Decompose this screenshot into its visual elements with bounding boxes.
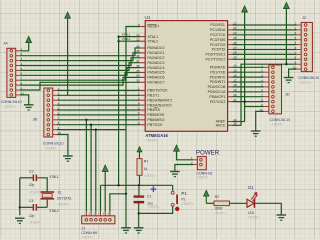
connector J1 value CONN-H6 [81, 231, 97, 235]
svg-text:5: 5 [138, 106, 140, 110]
LED D1 body [247, 199, 254, 208]
svg-text:<TEXT>: <TEXT> [144, 174, 156, 178]
svg-text:R2: R2 [215, 195, 220, 199]
svg-text:CONN-SIL10: CONN-SIL10 [43, 141, 64, 145]
svg-text:PC2/TCK: PC2/TCK [210, 33, 226, 37]
svg-text:CONN-SIL10: CONN-SIL10 [270, 118, 291, 122]
connector JB reference [33, 117, 38, 121]
svg-text:<TEXT>: <TEXT> [214, 212, 226, 216]
LED D1 reference [248, 185, 254, 190]
svg-text:PB4/SS: PB4/SS [147, 108, 160, 112]
crystal X1 body [42, 194, 52, 198]
wire JA pin5 to U1 PA3 [20, 63, 140, 71]
node rail-center [117, 184, 119, 186]
svg-text:RESET: RESET [147, 25, 160, 29]
svg-text:PD2/INT0: PD2/INT0 [210, 75, 226, 79]
power flag VCC above JA [26, 37, 32, 44]
wire J1 pin2 up [90, 125, 92, 212]
connector J1 reference [81, 226, 85, 230]
ground below JA [24, 105, 34, 110]
svg-text:16: 16 [233, 73, 237, 77]
connector JA body [7, 48, 20, 97]
capacitor C1 text placeholder [147, 205, 159, 209]
svg-text:22p: 22p [29, 183, 35, 187]
svg-text:<TEXT>: <TEXT> [29, 220, 41, 224]
wire reset rail horizontal [101, 184, 173, 186]
resistor R2 reference [215, 195, 220, 199]
wire U1 PC0 to JC pin1 [233, 24, 297, 26]
svg-text:25: 25 [233, 36, 237, 40]
wire U1 PC3 to JC pin4 [233, 39, 297, 41]
resistor R1 value 1k [144, 167, 148, 171]
capacitor C1 top plate [134, 195, 145, 197]
svg-text:22p: 22p [29, 214, 35, 218]
svg-text:23: 23 [233, 26, 237, 30]
connector JC reference [302, 16, 307, 20]
svg-text:22: 22 [233, 21, 237, 25]
svg-text:PB2/AIN0/INT2: PB2/AIN0/INT2 [147, 98, 172, 102]
wire R2 left lead [206, 202, 214, 204]
wire U1 PC6 to JC pin7 [233, 53, 297, 55]
node RESET branch [125, 193, 127, 195]
svg-text:<TEXT>: <TEXT> [45, 147, 57, 151]
svg-text:PC5/TDI: PC5/TDI [212, 48, 226, 52]
net label XTAL2 [49, 209, 59, 213]
connector JD text placeholder [272, 122, 284, 126]
svg-text:36: 36 [136, 64, 140, 68]
wire U1 PC1 to JC pin2 [233, 29, 297, 31]
wire C3 right lead / XTAL1 net [37, 178, 47, 192]
svg-text:<TEXT>: <TEXT> [147, 205, 159, 209]
button P1 text placeholder [181, 202, 193, 206]
resistor R2 text placeholder [214, 212, 226, 216]
wire JA pin8 to U1 PA6 [20, 77, 140, 85]
wire U1 PD6 to JD pin7 [233, 96, 264, 98]
power flag AREF supply [242, 6, 248, 122]
capacitor C4 value 22p [29, 214, 35, 218]
wire C1 top lead [138, 185, 140, 195]
wire LED cathode to ground [254, 203, 281, 215]
power flag VCC at J2 [174, 145, 180, 151]
svg-text:<TEXT>: <TEXT> [81, 235, 93, 239]
IC U1 text placeholder [145, 138, 157, 142]
svg-text:C1: C1 [147, 194, 152, 198]
wire JD pin10 to ground [256, 111, 264, 130]
U1 left pin numbers [136, 23, 140, 125]
svg-text:1k: 1k [144, 167, 148, 171]
svg-text:XTAL2: XTAL2 [49, 209, 59, 213]
wire C1 bottom lead to ground [138, 203, 140, 227]
svg-text:PD3/INT1: PD3/INT1 [210, 80, 226, 84]
capacitor C4 text placeholder [29, 220, 41, 224]
U1 right pin stubs [228, 25, 233, 125]
svg-text:10: 10 [21, 91, 25, 95]
svg-text:ATMEGA16: ATMEGA16 [145, 133, 168, 138]
wire VCC net JC pin9 / AVCC [233, 64, 297, 125]
wire U1 PD0 to JD pin1 [233, 66, 264, 68]
wire R1 bottom lead [139, 175, 141, 185]
svg-text:CONN-SIL10: CONN-SIL10 [299, 76, 320, 80]
svg-text:<TEXT>: <TEXT> [300, 81, 312, 85]
svg-text:PD7/OC2: PD7/OC2 [210, 100, 225, 104]
wire JA pin7 to U1 PA5 [20, 73, 140, 81]
svg-text:<TEXT>: <TEXT> [4, 105, 16, 109]
wire JB pin4 to U1 PB3 [57, 104, 140, 106]
U1 left pin names [147, 24, 172, 127]
svg-text:X1: X1 [57, 190, 61, 194]
capacitor C3 value 22p [29, 183, 35, 187]
LED D1 emission arrows [251, 193, 258, 201]
svg-text:PC1/SDA: PC1/SDA [210, 28, 226, 32]
svg-text:PC6/TOSC1: PC6/TOSC1 [205, 53, 225, 57]
wire JB pin3 to U1 PB2 [57, 99, 140, 101]
node VCC-JC9 [285, 63, 287, 65]
svg-text:PC0/SCL: PC0/SCL [210, 23, 225, 27]
wire branch to J1 pin6 [110, 194, 126, 212]
svg-text:34: 34 [136, 74, 140, 78]
svg-text:12: 12 [136, 38, 140, 42]
capacitor C1 reference [147, 194, 152, 198]
wire XTAL1 stub [119, 36, 141, 38]
wire JA pin6 to U1 PA4 [20, 68, 140, 76]
wire JD pin9 [245, 106, 264, 108]
resistor R2 body [214, 201, 230, 206]
wire U1 PD2 to JD pin3 [233, 76, 264, 78]
svg-text:18: 18 [233, 83, 237, 87]
svg-text:<TEXT>: <TEXT> [272, 122, 284, 126]
connector J2 text placeholder [197, 176, 209, 180]
IC U1 value ATMEGA16 [145, 133, 168, 138]
wire J2 pin1 to VCC [177, 151, 194, 160]
svg-text:35: 35 [136, 69, 140, 73]
node J1 pin3 tap [95, 128, 97, 130]
svg-text:PB6/MISO: PB6/MISO [147, 118, 164, 122]
connector JC pin numbers [293, 21, 297, 69]
U1 left pin stubs [140, 27, 145, 125]
wire JA pin3 to U1 PA1 [20, 53, 140, 61]
svg-text:40: 40 [136, 44, 140, 48]
power flag VCC above R1 [137, 147, 142, 159]
svg-text:330R: 330R [215, 206, 224, 210]
wire crystal bottom lead / XTAL2 net [46, 200, 48, 208]
LED D1 value LED [248, 211, 255, 215]
ground below J2 [170, 172, 180, 177]
svg-text:PD1/TXD: PD1/TXD [210, 70, 226, 74]
button P1 actuator bar [176, 195, 178, 205]
svg-text:POWER: POWER [196, 150, 220, 157]
svg-text:10: 10 [260, 108, 264, 112]
wire JB pin2 to U1 PB1 [57, 94, 140, 96]
button P1 value [181, 198, 185, 202]
connector JC value CONN-SIL10 [299, 76, 320, 80]
connector JD body [264, 65, 282, 114]
power flag VCC above J1 pin5 [102, 165, 108, 212]
net label XTAL1 [49, 175, 59, 179]
wire crystal left rail [19, 178, 21, 215]
IC U1 ATMEGA16 body [145, 21, 227, 132]
button P1 reference [181, 191, 187, 196]
wire U1 PC5 to JC pin6 [233, 49, 297, 51]
svg-text:XTAL2: XTAL2 [122, 37, 131, 41]
wire U1 PD4 to JD pin5 [233, 86, 264, 88]
capacitor C3 text placeholder [29, 190, 41, 194]
wire J1 pin1 up [85, 120, 87, 212]
svg-text:20: 20 [233, 93, 237, 97]
svg-text:30: 30 [233, 122, 237, 126]
wire RESET net vertical [126, 27, 140, 228]
connector JA pin numbers [21, 47, 25, 95]
connector J2 POWER body [193, 157, 206, 170]
wire button bottom lead [139, 206, 173, 213]
wire JA pin10 to ground [20, 95, 29, 105]
connector J1 body [82, 212, 115, 224]
svg-text:1: 1 [138, 87, 140, 91]
resistor R1 reference [144, 160, 149, 164]
ground below C1 [134, 228, 144, 233]
wire U1 PD1 to JD pin2 [233, 71, 264, 73]
svg-text:2: 2 [138, 92, 140, 96]
svg-text:XTAL1: XTAL1 [147, 35, 158, 39]
node XTAL2 [117, 40, 119, 42]
svg-text:P1: P1 [181, 191, 187, 196]
svg-text:PA6/ADC6: PA6/ADC6 [147, 76, 164, 80]
connector JD reference [285, 93, 290, 97]
connector JC text placeholder [300, 81, 312, 85]
capacitor C1 bottom plate [134, 201, 145, 204]
ground below JD [251, 131, 261, 136]
wire R2 to LED [230, 202, 247, 204]
svg-text:27: 27 [233, 46, 237, 50]
connector J2 value CONN-H2 [197, 172, 213, 176]
svg-text:9: 9 [138, 23, 140, 27]
svg-text:15: 15 [233, 69, 237, 73]
connector JB body [44, 88, 57, 137]
crystal X1 top plate [41, 191, 55, 193]
svg-text:JD: JD [285, 93, 290, 97]
svg-text:PA3/ADC3: PA3/ADC3 [147, 61, 164, 65]
resistor R2 value 330R [215, 206, 224, 210]
wire JB pin1 to U1 PB0 [57, 89, 140, 91]
svg-text:39: 39 [136, 49, 140, 53]
svg-text:XTAL1: XTAL1 [49, 175, 59, 179]
svg-text:U1: U1 [145, 15, 151, 20]
node R1/C1 junction [138, 184, 140, 186]
svg-text:PA5/ADC5: PA5/ADC5 [147, 71, 164, 75]
wire JA pin1 to power rail [20, 43, 29, 51]
power flag VCC tall left [65, 12, 71, 95]
svg-text:LED: LED [248, 211, 255, 215]
wire J2 pin2 to ground [175, 165, 193, 172]
svg-text:JB: JB [33, 117, 38, 121]
svg-text:XTAL2: XTAL2 [147, 39, 158, 43]
svg-text:PD5/OC1A: PD5/OC1A [208, 90, 226, 94]
connector JD pin numbers [260, 64, 264, 112]
svg-text:PD0/RXD: PD0/RXD [210, 66, 226, 70]
resistor R1 text placeholder [144, 174, 156, 178]
wire JA pin9 to U1 PA7 [20, 82, 140, 90]
capacitor C4 reference [29, 199, 34, 203]
svg-text:6: 6 [138, 111, 140, 115]
ground below LED [277, 215, 287, 220]
wire JA pin4 to U1 PA2 [20, 58, 140, 66]
net label XTAL2 at U1 [122, 37, 131, 41]
wire JB pin7 to U1 PB6 [57, 119, 140, 121]
ground below JC [284, 78, 294, 83]
svg-text:24: 24 [233, 31, 237, 35]
wire U1 PC7 to JC pin8 [233, 58, 297, 60]
wire U1 PC4 to JC pin5 [233, 44, 297, 46]
svg-text:JC: JC [302, 16, 307, 20]
svg-text:JA: JA [3, 41, 8, 45]
capacitor C3 reference [29, 169, 34, 173]
wire U1 PD7 to JD pin8 [233, 101, 264, 103]
ground right of JB [63, 156, 73, 161]
connector J1 text placeholder [81, 235, 93, 239]
wire U1 PD5 to JD pin6 [233, 91, 264, 93]
connector JB pin numbers [58, 87, 62, 135]
wire JB pin5 to U1 PB4 [57, 109, 140, 111]
svg-text:4: 4 [138, 101, 140, 105]
svg-text:10: 10 [58, 131, 62, 135]
LED D1 text placeholder [248, 215, 260, 219]
button P1 terminals [171, 191, 174, 206]
wire JB pin8 to U1 PB7 [57, 124, 140, 126]
svg-text:PB5/MOSI: PB5/MOSI [147, 113, 164, 117]
connector JD value CONN-SIL10 [270, 118, 291, 122]
wire center vertical to reset rail [118, 37, 120, 186]
resistor R1 body [137, 159, 142, 176]
power flag VCC at R2 [204, 190, 209, 203]
svg-text:19: 19 [233, 88, 237, 92]
ground below crystal rail [15, 218, 25, 223]
svg-text:38: 38 [136, 54, 140, 58]
svg-text:AVCC: AVCC [216, 124, 226, 128]
wire JA pin2 to U1 PA0 [20, 48, 140, 56]
svg-text:14: 14 [233, 64, 237, 68]
svg-text:C3: C3 [29, 169, 34, 173]
svg-text:3: 3 [138, 97, 140, 101]
svg-text:8: 8 [138, 121, 140, 125]
capacitor C1 value 10u [147, 201, 153, 205]
connector J1 pin numbers [84, 212, 110, 216]
connector J2 pin numbers [191, 156, 193, 165]
svg-text:28: 28 [233, 51, 237, 55]
svg-text:29: 29 [233, 56, 237, 60]
svg-text:PA4/ADC4: PA4/ADC4 [147, 66, 164, 70]
node PD7 staircase [243, 100, 245, 102]
label POWER [196, 150, 220, 157]
node C1/button junction [138, 212, 140, 214]
svg-text:<TEXT>: <TEXT> [197, 176, 209, 180]
svg-text:37: 37 [136, 59, 140, 63]
wire U1 PC2 to JC pin3 [233, 34, 297, 36]
svg-text:R1: R1 [144, 160, 149, 164]
wire C3 left lead [20, 177, 33, 179]
svg-text:PC4/TDO: PC4/TDO [210, 43, 226, 47]
svg-text:<TEXT>: <TEXT> [145, 138, 157, 142]
svg-text:PB0/T0/XCK: PB0/T0/XCK [147, 89, 168, 93]
svg-text:<TEXT>: <TEXT> [181, 202, 193, 206]
svg-text:<TEXT>: <TEXT> [57, 203, 69, 207]
svg-text:33: 33 [136, 79, 140, 83]
capacitor C4 plates [33, 204, 38, 211]
U1 right pin numbers [233, 21, 237, 125]
svg-text:<TEXT>: <TEXT> [248, 215, 260, 219]
svg-text:21: 21 [233, 98, 237, 102]
wire JB pin6 to U1 PB5 [57, 114, 140, 116]
wire C4 right lead [37, 206, 47, 208]
svg-text:PA2/ADC2: PA2/ADC2 [147, 56, 164, 60]
svg-text:13: 13 [136, 33, 140, 37]
svg-text:CONN-H6: CONN-H6 [81, 231, 97, 235]
wire JC pin10 to ground [289, 69, 297, 77]
svg-text:10: 10 [293, 66, 297, 70]
svg-text:PB7/SCK: PB7/SCK [147, 123, 163, 127]
svg-text:7: 7 [138, 116, 140, 120]
svg-text:26: 26 [233, 41, 237, 45]
crystal X1 value CRYSTAL [57, 197, 72, 201]
svg-text:XTAL1: XTAL1 [122, 32, 131, 36]
svg-text:PC3/TMS: PC3/TMS [210, 38, 226, 42]
U1 right pin names [205, 23, 226, 127]
svg-text:PA0/ADC0: PA0/ADC0 [147, 46, 164, 50]
node J1 pin1 tap [85, 119, 87, 121]
wire J1 pin3 up [95, 130, 97, 212]
net label XTAL1 at U1 [122, 32, 131, 36]
IC U1 reference label [145, 15, 151, 20]
wire J1 pin4 up [100, 185, 102, 211]
crystal X1 text placeholder [57, 203, 69, 207]
connector JB value CONN-SIL10 [43, 141, 64, 145]
connector JA reference [3, 41, 8, 45]
svg-text:CRYSTAL: CRYSTAL [57, 197, 72, 201]
node C4 left junction [19, 206, 21, 208]
ground bottom middle-left [121, 228, 131, 233]
button P1 knob [175, 207, 179, 211]
wire U1 PD3 to JD pin4 [233, 81, 264, 83]
crystal X1 bottom plate [41, 198, 55, 200]
wire button top lead [172, 185, 174, 191]
capacitor C3 plates [33, 175, 38, 182]
connector JA text placeholder [4, 105, 16, 109]
wire AREF to power stem [233, 121, 245, 123]
svg-text:PD6/ICP1: PD6/ICP1 [209, 95, 225, 99]
svg-text:CONN-SIL10: CONN-SIL10 [1, 100, 22, 104]
svg-text:J1: J1 [81, 226, 85, 230]
svg-text:17: 17 [233, 78, 237, 82]
connector JC body [297, 22, 313, 71]
svg-text:PC7/TOSC2: PC7/TOSC2 [205, 58, 225, 62]
svg-text:PB1/T1: PB1/T1 [147, 94, 159, 98]
svg-text:PA7/ADC7: PA7/ADC7 [147, 81, 164, 85]
node J1 pin2 tap [90, 124, 92, 126]
svg-text:PD4/OC1B: PD4/OC1B [208, 85, 226, 89]
wire JB pin9 [57, 129, 126, 131]
wire JB pin10 to ground [57, 135, 68, 156]
svg-text:D1: D1 [248, 185, 254, 190]
svg-text:<TEXT>: <TEXT> [29, 190, 41, 194]
wire C4 left lead [20, 206, 33, 208]
connector JB text placeholder [45, 147, 57, 151]
capacitor C1 plus sign [151, 186, 157, 192]
power flag VCC right [284, 3, 290, 65]
wire XTAL2 stub [119, 40, 141, 42]
crystal X1 reference [57, 190, 61, 194]
svg-text:C4: C4 [29, 199, 34, 203]
connector JA value CONN-SIL10 [1, 100, 22, 104]
svg-text:PB3/AIN1/OC0: PB3/AIN1/OC0 [147, 103, 171, 107]
node XTAL1 [117, 35, 119, 37]
